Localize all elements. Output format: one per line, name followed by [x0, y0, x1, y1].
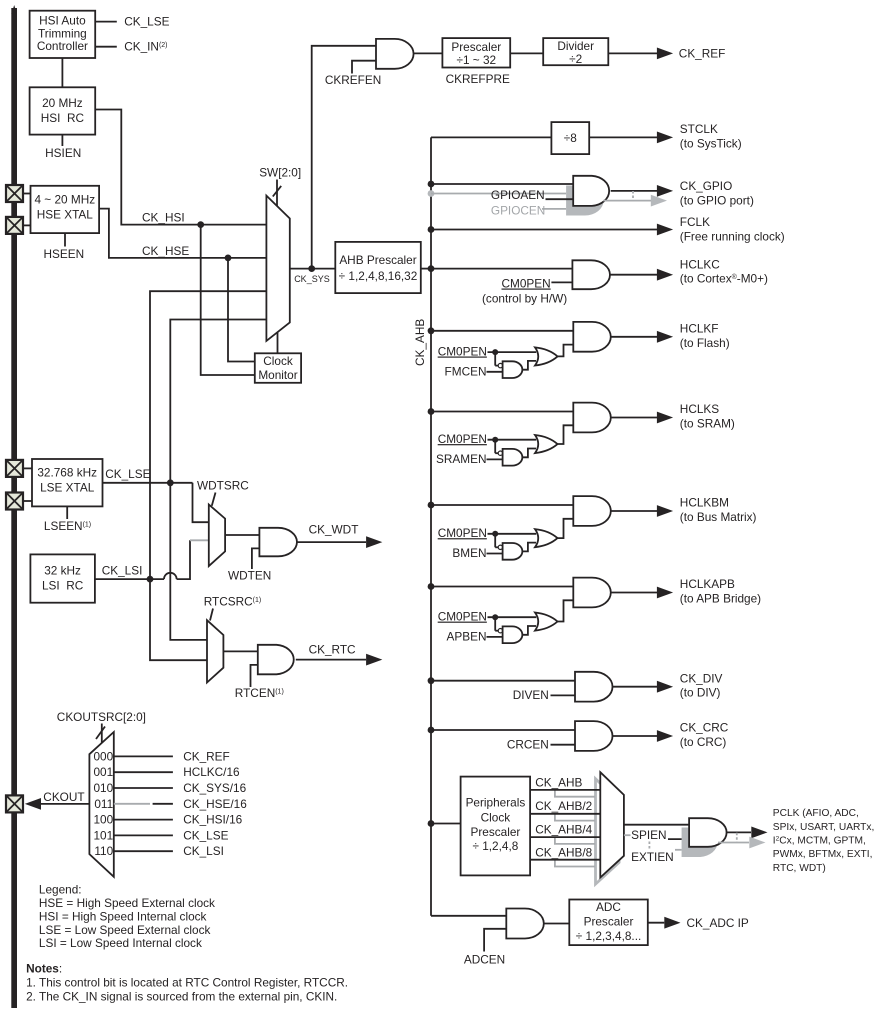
svg-text:(to GPIO port): (to GPIO port) [680, 193, 754, 207]
and-gate CKREFEN [376, 39, 414, 69]
svg-text:SPIx, USART, UARTx,: SPIx, USART, UARTx, [773, 822, 875, 833]
node CK_CRC bus junction [428, 727, 435, 734]
label GPIOCEN [491, 204, 545, 218]
wire HSIEN stub [61, 135, 63, 146]
and-gate HCLKF [573, 322, 610, 352]
and-gate DIVEN [575, 672, 613, 702]
wire HCLKS output [611, 417, 657, 419]
label CRCEN [507, 738, 549, 752]
svg-text:4 ~ 20 MHz: 4 ~ 20 MHz [34, 192, 95, 206]
svg-text:LSI = Low Speed Internal clock: LSI = Low Speed Internal clock [39, 936, 202, 950]
arrow CK_RTC [366, 654, 382, 666]
svg-text:(to APB Bridge): (to APB Bridge) [680, 592, 761, 606]
svg-text:(Free running clock): (Free running clock) [680, 229, 785, 243]
svg-text:CK_WDT: CK_WDT [309, 523, 359, 537]
nand-bubble HCLKAPB [498, 629, 502, 633]
label PCLK list [773, 808, 875, 874]
mux PCLK [600, 772, 624, 877]
or-gate HCLKAPB [535, 613, 558, 631]
label RTCEN(1) [235, 686, 284, 700]
wire or to and HCLKBM [558, 519, 574, 538]
svg-text:Prescaler: Prescaler [584, 915, 634, 929]
arrow FCLK [657, 224, 673, 236]
tick SW select slash [273, 186, 281, 197]
wire ADC prescaler output [648, 922, 665, 924]
svg-text:÷ 1,2,4,8: ÷ 1,2,4,8 [472, 839, 518, 853]
label CK_HSI [142, 211, 185, 225]
power bus bar [11, 5, 17, 1008]
svg-text:CK_AHB/4: CK_AHB/4 [535, 822, 592, 836]
wire CK_HSI to clock monitor [201, 225, 255, 375]
node CK_DIV bus junction [428, 677, 435, 684]
label APBEN [447, 630, 487, 644]
svg-text:000: 000 [94, 749, 114, 763]
wire LSEEN stub [66, 506, 68, 519]
label CK_ADC IP [687, 916, 749, 930]
shadow wire CK_AHB/8 [555, 860, 595, 867]
svg-text:Notes:: Notes: [26, 961, 62, 975]
wire CM0PEN down HCLKAPB [495, 617, 498, 631]
svg-text:CK_HSE/16: CK_HSE/16 [183, 797, 247, 811]
label CKREFPRE [446, 72, 510, 86]
svg-text:RTC, WDT): RTC, WDT) [773, 863, 826, 874]
wire small and to or HCLKS [523, 449, 537, 458]
svg-text:(to CRC): (to CRC) [680, 735, 727, 749]
svg-text:Prescaler: Prescaler [470, 825, 520, 839]
label CK_AHB/4 [535, 822, 592, 836]
block divider by 8 [551, 122, 589, 154]
svg-text:HSE = High Speed External cloc: HSE = High Speed External clock [39, 896, 215, 910]
mux input 001 HCLKC/16 [94, 765, 241, 779]
node CM0PEN junction HCLKAPB [492, 614, 498, 620]
svg-text:CK_ADC IP: CK_ADC IP [687, 916, 749, 930]
wire CK_CRC from bus [431, 729, 575, 731]
block Clock Monitor [255, 353, 301, 383]
label CM0PEN hclkc [502, 277, 551, 291]
wire CK_WDT output [297, 541, 366, 543]
label CM0PEN HCLKF [438, 345, 487, 359]
wire HCLKAPB output [611, 592, 657, 594]
mux input 101 CK_LSE [94, 828, 229, 842]
wire bus to peripherals prescaler [431, 823, 461, 825]
label CK_AHB tap [535, 776, 582, 790]
and-gate PCLK [689, 818, 727, 847]
svg-text:001: 001 [94, 765, 114, 779]
label FMCEN [445, 364, 487, 378]
wire HCLKC output [610, 274, 657, 276]
wire WDTEN enable [252, 548, 260, 569]
mux input 011 CK_HSE/16 [94, 797, 247, 811]
wire pin4 to LSE box [23, 500, 32, 502]
svg-text:ADC: ADC [596, 900, 621, 914]
svg-text:HCLKS: HCLKS [680, 402, 719, 416]
wire pin2 to HSE box [23, 224, 31, 226]
node HCLKAPB bus junction [428, 583, 435, 590]
wire DIVEN enable [551, 694, 576, 696]
svg-text:ADCEN: ADCEN [464, 952, 505, 966]
arrow CK_REF [657, 48, 673, 60]
and-gate ADCEN [506, 909, 544, 939]
label GPIOAEN [491, 188, 545, 202]
wire small and to or HCLKF [523, 361, 537, 370]
svg-text:HCLKF: HCLKF [680, 322, 719, 336]
label WDTSRC [197, 479, 249, 493]
label CK_CRC [680, 721, 729, 749]
mux system clock SW [266, 196, 289, 341]
wire gray GPIOCEN from bus [431, 193, 566, 195]
label CK_AHB/2 [535, 799, 592, 813]
label BMEN [452, 546, 486, 560]
svg-text:Trimming: Trimming [38, 26, 87, 40]
svg-text:(to SRAM): (to SRAM) [680, 417, 735, 431]
wire SRAMEN enable [487, 458, 503, 460]
arrow CK_CRC [657, 730, 673, 742]
wire prescaler to divider [510, 52, 543, 54]
node HCLKC bus junction [428, 265, 435, 272]
wire gray SPIEN lead [624, 834, 631, 836]
svg-text:BMEN: BMEN [452, 546, 486, 560]
wire CM0PEN hclkc [551, 281, 572, 283]
wire CK_AHB bus vertical [430, 137, 432, 915]
wire CKREFEN enable [352, 61, 376, 74]
svg-text:(to DIV): (to DIV) [680, 686, 721, 700]
node CM0PEN junction HCLKBM [492, 531, 498, 537]
svg-text:011: 011 [94, 797, 113, 811]
svg-text:1. This control bit is located: 1. This control bit is located at RTC Co… [26, 975, 348, 989]
svg-text:CKREFPRE: CKREFPRE [446, 72, 510, 86]
dashed link PCLK outputs [736, 833, 738, 843]
svg-text:CM0PEN: CM0PEN [438, 526, 487, 540]
wire HCLKBM from bus [431, 504, 573, 506]
small and-gate HCLKAPB [503, 626, 523, 643]
svg-text:CK_DIV: CK_DIV [680, 671, 723, 685]
shadow wire CK_AHB/2 [555, 814, 595, 821]
svg-text:CK_LSI: CK_LSI [102, 563, 143, 577]
svg-text:HCLKAPB: HCLKAPB [680, 577, 735, 591]
svg-text:CK_REF: CK_REF [679, 46, 726, 60]
wire mux to clock monitor [277, 332, 279, 353]
nand-bubble HCLKS [498, 451, 502, 455]
wire ADC gate to prescaler [544, 923, 569, 925]
wire RTC mux output [223, 650, 257, 652]
arrow CKOUT [25, 798, 41, 810]
svg-text:CM0PEN: CM0PEN [502, 277, 551, 291]
label CK_SYS [294, 274, 330, 284]
svg-text:PWMx, BFTMx, EXTI,: PWMx, BFTMx, EXTI, [773, 849, 873, 860]
label LSEEN(1) [44, 519, 91, 533]
svg-text:÷ 1,2,4,8,16,32: ÷ 1,2,4,8,16,32 [339, 269, 418, 283]
svg-text:RTCSRC(1): RTCSRC(1) [204, 595, 262, 609]
svg-text:CM0PEN: CM0PEN [438, 610, 487, 624]
wire CKOUT output [41, 803, 89, 805]
svg-text:CK_CRC: CK_CRC [680, 721, 729, 735]
svg-text:÷ 1,2,3,4,8...: ÷ 1,2,3,4,8... [576, 929, 642, 943]
nand-bubble HCLKF [498, 363, 502, 367]
wire CKOUT select [101, 724, 103, 744]
node CK_LSE junction [167, 479, 174, 486]
block 4~20 MHz HSE XTAL [31, 186, 100, 233]
wire trimming to HSI RC [61, 58, 63, 87]
mux input 010 CK_SYS/16 [94, 781, 247, 795]
label STCLK [680, 122, 742, 150]
arrow HCLKF [657, 331, 673, 343]
wire HSEEN stub [64, 233, 66, 246]
label CKREFEN [325, 73, 381, 87]
wire pin3 to LSE box [23, 467, 32, 469]
svg-text:HSIEN: HSIEN [45, 146, 81, 160]
wire CM0PEN down HCLKS [495, 440, 498, 454]
svg-text:HSE XTAL: HSE XTAL [37, 207, 94, 221]
wire gate to prescaler [414, 52, 443, 54]
label SRAMEN [436, 452, 486, 466]
shadow wire CK_AHB [555, 790, 595, 797]
wire CM0PEN down HCLKBM [495, 534, 498, 548]
wire ADCEN enable [484, 929, 506, 952]
wire HCLKF from bus [431, 330, 573, 332]
wire or to and HCLKS [558, 425, 574, 444]
svg-text:CK_LSE: CK_LSE [124, 15, 169, 29]
svg-text:PCLK (AFIO, ADC,: PCLK (AFIO, ADC, [773, 808, 859, 819]
svg-text:CM0PEN: CM0PEN [438, 345, 487, 359]
svg-text:CK_AHB: CK_AHB [413, 319, 427, 366]
block 20 MHz HSI RC [30, 87, 96, 134]
svg-text:SW[2:0]: SW[2:0] [259, 165, 301, 179]
wire RTCSRC select [210, 609, 213, 621]
svg-text:CKREFEN: CKREFEN [325, 73, 381, 87]
small and-gate HCLKS [503, 449, 523, 466]
and-gate GPIOAEN [573, 176, 609, 206]
svg-text:CK_LSE: CK_LSE [105, 467, 150, 481]
wire SW select [276, 180, 278, 207]
node GPIOCEN gray junction [428, 190, 435, 197]
svg-text:÷1 ~ 32: ÷1 ~ 32 [456, 53, 496, 67]
block 32 kHz LSI RC [30, 554, 95, 602]
svg-text:LSI RC: LSI RC [42, 578, 84, 592]
label ADCEN [464, 952, 505, 966]
wire gray EXTIEN enable [675, 849, 682, 851]
nand-bubble HCLKBM [498, 545, 502, 549]
label CK_LSE lower [105, 467, 150, 481]
label control by HW [482, 292, 567, 306]
shadow wire CK_AHB/4 [555, 837, 595, 844]
svg-text:CK_HSI/16: CK_HSI/16 [183, 813, 242, 827]
and-gate RTCEN [258, 645, 294, 675]
wire CK_AHB tap [530, 789, 600, 791]
shadow gate GPIOCEN [566, 186, 604, 216]
wire CK_HSE [99, 209, 266, 258]
wire CM0PEN HCLKS [488, 439, 537, 441]
svg-text:CK_SYS: CK_SYS [294, 274, 330, 284]
svg-text:32.768 kHz: 32.768 kHz [37, 465, 97, 479]
wire STCLK row [431, 136, 657, 138]
svg-text:(control by H/W): (control by H/W) [482, 292, 567, 306]
label CKOUTSRC[2:0] [57, 710, 146, 724]
and-gate HCLKS [573, 403, 611, 433]
wire CK_SYS output [290, 268, 336, 270]
mux input 100 CK_HSI/16 [94, 813, 243, 827]
wire WDT mux output [225, 534, 259, 536]
svg-text:GPIOAEN: GPIOAEN [491, 188, 545, 202]
arrow HCLKC [657, 269, 673, 281]
mux CKOUTSRC [89, 732, 113, 877]
arrow CK_GPIO [657, 185, 673, 197]
node HCLKF bus junction [428, 327, 435, 334]
block AHB Prescaler [335, 242, 421, 293]
svg-text:110: 110 [94, 844, 113, 858]
and-gate WDTEN [259, 528, 297, 557]
svg-text:010: 010 [94, 781, 114, 795]
svg-text:DIVEN: DIVEN [513, 688, 549, 702]
node HCLKS bus junction [428, 408, 435, 415]
wire CRCEN enable [551, 744, 576, 746]
and-gate HCLKBM [573, 496, 611, 526]
wire CK_LSI vertical to RTC mux [150, 579, 207, 660]
arrow gray PCLK [749, 837, 765, 849]
wire bus to ADC gate [431, 915, 506, 917]
svg-text:EXTIEN: EXTIEN [631, 850, 674, 864]
wire HCLKC from bus [431, 268, 572, 270]
wire CM0PEN down HCLKF [495, 352, 498, 366]
svg-text:32 kHz: 32 kHz [44, 563, 81, 577]
label HCLKC [680, 257, 768, 285]
block 32.768 kHz LSE XTAL [32, 459, 103, 506]
label CK_AHB [413, 319, 427, 366]
small and-gate HCLKF [503, 361, 523, 378]
wire CK_SYS up to CKREFEN gate [312, 46, 376, 269]
svg-text:CK_GPIO: CK_GPIO [680, 179, 732, 193]
node CM0PEN junction HCLKF [492, 349, 498, 355]
shadow gate PCLK [682, 828, 718, 858]
wire CK_HSE to clock monitor [228, 258, 255, 362]
svg-text:CK_LSE: CK_LSE [183, 828, 228, 842]
svg-text:CKOUT: CKOUT [43, 790, 84, 804]
node FCLK bus junction [428, 226, 435, 233]
dashed link SPIEN EXTIEN [648, 842, 650, 851]
wire APBEN enable [487, 636, 503, 638]
wire CK_GPIO output [611, 190, 657, 192]
wire PCLK output [726, 831, 751, 833]
svg-text:CK_LSI: CK_LSI [183, 844, 224, 858]
svg-text:101: 101 [94, 828, 114, 842]
svg-text:Clock: Clock [263, 354, 293, 368]
svg-text:HSI Auto: HSI Auto [39, 13, 86, 27]
svg-text:CK_AHB: CK_AHB [535, 776, 582, 790]
wire or to and HCLKAPB [558, 600, 574, 621]
svg-text:20 MHz: 20 MHz [42, 96, 83, 110]
node CM0PEN junction HCLKS [492, 437, 498, 443]
wire small and to or HCLKAPB [523, 626, 537, 635]
block HSI Auto Trimming Controller [30, 11, 96, 58]
label HSEEN [43, 247, 84, 261]
wire CK_HSI [95, 110, 266, 225]
svg-text:CK_AHB/8: CK_AHB/8 [535, 846, 592, 860]
node CK_GPIO bus junction [428, 181, 435, 188]
wire CM0PEN HCLKF [488, 351, 537, 353]
svg-text:CRCEN: CRCEN [507, 738, 549, 752]
wire CK_IN input stub [95, 46, 117, 48]
mux input 110 CK_LSI [94, 844, 223, 858]
label CK_LSI [102, 563, 143, 577]
svg-text:(to Bus Matrix): (to Bus Matrix) [680, 510, 757, 524]
svg-text:Peripherals: Peripherals [466, 796, 526, 810]
wire pin1 to HSE box [23, 193, 31, 195]
label DIVEN [513, 688, 549, 702]
label CK_HSE [142, 244, 189, 258]
svg-text:÷8: ÷8 [564, 131, 577, 145]
svg-text:CK_HSI: CK_HSI [142, 211, 185, 225]
arrow CK_WDT [366, 536, 382, 548]
svg-text:WDTSRC: WDTSRC [197, 479, 249, 493]
wire CK_LSE input stub [95, 21, 117, 23]
svg-text:FMCEN: FMCEN [445, 364, 487, 378]
svg-text:CK_RTC: CK_RTC [309, 643, 356, 657]
label WDTEN [228, 569, 271, 583]
and-gate CRCEN [575, 721, 613, 751]
svg-text:CK_SYS/16: CK_SYS/16 [183, 781, 246, 795]
wire AHB prescaler to bus [421, 268, 431, 270]
svg-text:CKOUTSRC[2:0]: CKOUTSRC[2:0] [57, 710, 146, 724]
legend text [39, 883, 215, 950]
wire or to and HCLKF [558, 345, 574, 357]
svg-text:CM0PEN: CM0PEN [438, 432, 487, 446]
svg-text:I2Cx, MCTM, GPTM,: I2Cx, MCTM, GPTM, [773, 836, 866, 847]
svg-text:Legend:: Legend: [39, 883, 82, 897]
wire BMEN enable [487, 553, 503, 555]
svg-text:Prescaler: Prescaler [451, 40, 501, 54]
label HCLKF [680, 322, 730, 350]
label CK_REF [679, 46, 726, 60]
notes text [26, 961, 348, 1003]
wire PCLK mux output [624, 824, 689, 826]
label CK_GPIO [680, 179, 754, 207]
svg-text:HCLKC/16: HCLKC/16 [183, 765, 240, 779]
wire HCLKAPB from bus [431, 586, 573, 588]
label CK_LSE [124, 15, 169, 29]
arrow PCLK [751, 827, 767, 839]
label HSIEN [45, 146, 81, 160]
arrow STCLK [657, 132, 673, 144]
svg-text:STCLK: STCLK [680, 122, 718, 136]
svg-text:AHB Prescaler: AHB Prescaler [339, 253, 416, 267]
svg-text:FCLK: FCLK [680, 215, 710, 229]
svg-text:Clock: Clock [481, 810, 511, 824]
label RTCSRC(1) [204, 595, 262, 609]
or-gate HCLKF [535, 347, 558, 365]
svg-text:SPIEN: SPIEN [631, 828, 666, 842]
svg-text:CK_REF: CK_REF [183, 749, 230, 763]
shadow pclk mux [596, 779, 620, 884]
wire FCLK row [431, 229, 657, 231]
wire CK_DIV output [613, 686, 658, 688]
svg-text:Monitor: Monitor [258, 368, 297, 382]
label CM0PEN HCLKS [438, 432, 487, 446]
wire CK_LSI to WDT mux [177, 540, 209, 579]
wire WDTSRC select [212, 493, 216, 506]
label HCLKS [680, 402, 735, 430]
dashed link GPIO outputs [632, 191, 634, 201]
mux WDTSRC [209, 505, 225, 567]
pin XTAL1 (LSE) [6, 460, 23, 477]
label HCLKAPB [680, 577, 761, 605]
svg-text:(to Flash): (to Flash) [680, 336, 730, 350]
svg-text:CK_AHB/2: CK_AHB/2 [535, 799, 592, 813]
wire small and to or HCLKBM [523, 543, 537, 552]
wire CK_LSI [95, 578, 164, 580]
wire CK_AHB/4 tap [530, 836, 600, 838]
wire CK_LSE vertical to RTC mux [170, 483, 207, 640]
arrow gray GPIO [651, 195, 667, 207]
arrow CK_ADC [664, 917, 680, 929]
